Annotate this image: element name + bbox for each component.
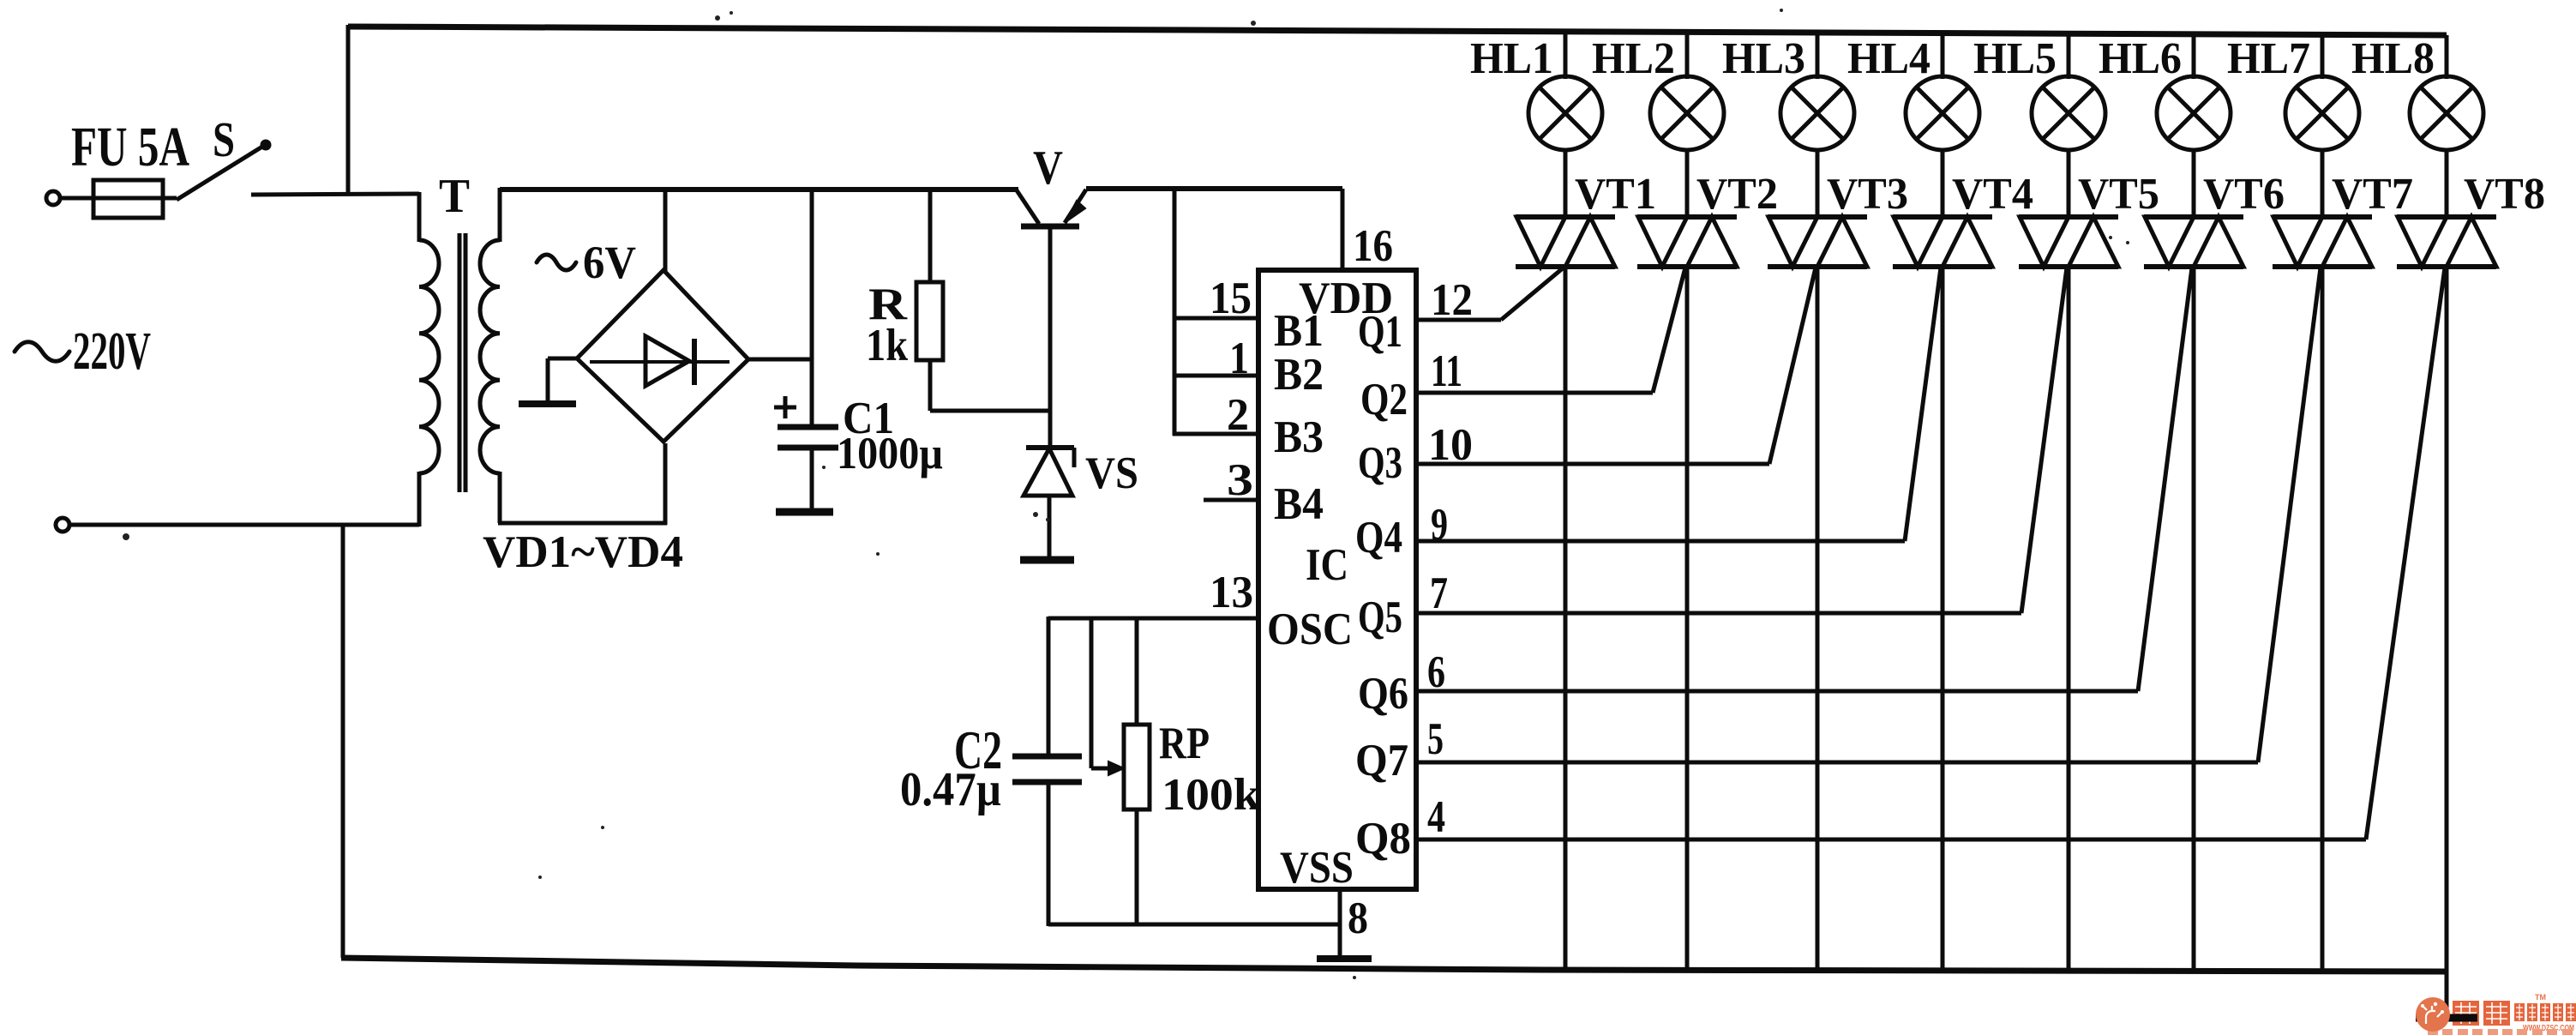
label 1000µ bbox=[837, 429, 943, 478]
svg-text:Q7: Q7 bbox=[1355, 736, 1408, 785]
svg-text:TM: TM bbox=[2535, 993, 2546, 1002]
label Q4 bbox=[1355, 513, 1402, 563]
wire RP bottom lead bbox=[1135, 809, 1139, 926]
label Q2 bbox=[1360, 375, 1408, 424]
wire lamp HL7 top lead bbox=[2321, 34, 2325, 79]
label ~6V bbox=[537, 237, 636, 288]
wire Q3 output bbox=[1416, 462, 1769, 466]
wire triac VT8 cathode down bbox=[2445, 267, 2449, 1016]
wire B-select bus bbox=[1173, 187, 1177, 436]
svg-text:VT4: VT4 bbox=[1952, 170, 2033, 219]
pin number 8 bbox=[1348, 894, 1368, 943]
wire pin13 lead bbox=[1048, 617, 1258, 621]
potentiometer RP 100k bbox=[1124, 725, 1150, 809]
label 100k bbox=[1162, 770, 1261, 820]
wire secondary top lead bbox=[498, 188, 502, 242]
pin number 12 bbox=[1431, 275, 1473, 325]
svg-text:RP: RP bbox=[1159, 719, 1210, 768]
wire RP wiper branch bbox=[1091, 617, 1124, 775]
label VT3 bbox=[1827, 170, 1908, 219]
ground bar bottom right bbox=[2416, 1014, 2477, 1022]
wire lamp HL3 top lead bbox=[1816, 33, 1820, 79]
svg-text:Q4: Q4 bbox=[1355, 513, 1402, 563]
label VT7 bbox=[2332, 170, 2413, 219]
label Q1 bbox=[1358, 307, 1402, 357]
wire lamp HL6 top lead bbox=[2192, 34, 2196, 79]
lamp HL2 bbox=[1650, 76, 1724, 150]
svg-text:Q2: Q2 bbox=[1360, 375, 1408, 424]
triac VT3 triangles bbox=[1768, 217, 1867, 267]
svg-text:HL1: HL1 bbox=[1470, 34, 1553, 83]
svg-text:220V: 220V bbox=[73, 322, 151, 381]
triac VT4 MT2 bar bbox=[1893, 214, 1992, 220]
label HL4 bbox=[1847, 34, 1930, 83]
svg-text:Q8: Q8 bbox=[1355, 814, 1411, 864]
label HL2 bbox=[1592, 34, 1675, 83]
pin number 4 bbox=[1427, 792, 1445, 842]
svg-text:HL2: HL2 bbox=[1592, 34, 1675, 83]
pin number 5 bbox=[1427, 714, 1444, 764]
lamp HL1 bbox=[1528, 76, 1602, 150]
pin number 11 bbox=[1431, 346, 1462, 396]
wire VS anode lead bbox=[1048, 496, 1052, 557]
svg-text:8: 8 bbox=[1348, 894, 1368, 943]
svg-text:11: 11 bbox=[1431, 346, 1462, 396]
wire pin1 lead bbox=[1174, 374, 1258, 378]
lamp HL8 bbox=[2410, 76, 2483, 150]
label VSS bbox=[1280, 843, 1354, 893]
wire Q2 gate diagonal bbox=[1653, 268, 1685, 393]
wire C2 bottom lead bbox=[1047, 782, 1051, 926]
lamp HL3 bbox=[1780, 76, 1854, 150]
svg-text:IC: IC bbox=[1306, 540, 1348, 590]
bridge rectifier VD1~VD4 bbox=[577, 270, 748, 442]
svg-text:VT2: VT2 bbox=[1696, 170, 1778, 219]
svg-text:V: V bbox=[1033, 141, 1063, 195]
wire secondary bottom lead bbox=[498, 443, 667, 525]
label 0.47µ bbox=[900, 763, 1001, 816]
label HL7 bbox=[2227, 34, 2310, 83]
svg-text:6V: 6V bbox=[583, 237, 636, 288]
svg-text:HL6: HL6 bbox=[2099, 34, 2182, 83]
transformer T secondary winding bbox=[480, 240, 500, 473]
wire lamp HL5 top lead bbox=[2067, 33, 2071, 79]
lamp HL4 bbox=[1906, 76, 1979, 150]
svg-text:15: 15 bbox=[1210, 274, 1252, 323]
wire Q1 output bbox=[1416, 318, 1501, 322]
label ~220V bbox=[15, 322, 151, 381]
wire osc loop bottom bbox=[1048, 923, 1340, 927]
label VDD bbox=[1299, 274, 1393, 323]
label HL3 bbox=[1722, 34, 1805, 83]
wire RP top lead bbox=[1135, 617, 1139, 726]
label Q6 bbox=[1358, 669, 1408, 719]
label Q3 bbox=[1358, 438, 1402, 488]
wire lamp HL2 top lead bbox=[1685, 32, 1690, 79]
zener VS triangle bbox=[1024, 448, 1072, 496]
wire Q7 output bbox=[1416, 761, 2258, 765]
label VT1 bbox=[1575, 170, 1656, 219]
triac VT7 triangles bbox=[2273, 217, 2372, 267]
svg-text:VT5: VT5 bbox=[2078, 170, 2159, 219]
wire V base down bbox=[1048, 228, 1053, 449]
wire triac VT7 cathode down bbox=[2321, 267, 2325, 972]
triac VT2 MT2 bar bbox=[1637, 214, 1737, 220]
svg-text:1000µ: 1000µ bbox=[837, 429, 943, 478]
svg-text:B3: B3 bbox=[1274, 412, 1324, 462]
triac VT2 triangles bbox=[1638, 217, 1737, 267]
wire Q4 gate diagonal bbox=[1905, 268, 1941, 541]
svg-text:7: 7 bbox=[1430, 569, 1448, 618]
pin number 13 bbox=[1210, 568, 1253, 617]
svg-text:VD1~VD4: VD1~VD4 bbox=[483, 527, 683, 577]
wire lamp HL2 to triac bbox=[1685, 148, 1690, 219]
wire C2 top lead bbox=[1047, 617, 1051, 755]
pin number 6 bbox=[1427, 647, 1445, 697]
svg-text:B1: B1 bbox=[1274, 306, 1324, 356]
triac VT8 triangles bbox=[2398, 217, 2496, 267]
transistor V base bar bbox=[1021, 224, 1079, 230]
triac VT7 MT2 bar bbox=[2273, 214, 2372, 220]
wire DC+ riser bbox=[810, 188, 814, 429]
triac VT4 MT1 bar bbox=[1893, 264, 1992, 269]
label VT2 bbox=[1696, 170, 1778, 219]
lamp HL7 bbox=[2285, 76, 2359, 150]
ground bar pin8 bbox=[1317, 955, 1372, 962]
svg-text:T: T bbox=[439, 170, 470, 223]
triac VT8 MT1 bar bbox=[2397, 264, 2496, 269]
label T bbox=[439, 170, 470, 223]
triac VT8 MT2 bar bbox=[2397, 214, 2496, 220]
svg-text:4: 4 bbox=[1427, 792, 1445, 842]
wire pin8 lead bbox=[1338, 889, 1342, 957]
wire VDD rail bbox=[1086, 189, 1342, 272]
svg-text:13: 13 bbox=[1210, 568, 1253, 617]
terminal input N bbox=[56, 518, 69, 532]
wire triac VT2 cathode down bbox=[1685, 267, 1690, 970]
wire pin3 lead bbox=[1204, 498, 1258, 502]
transistor V collector bbox=[1017, 190, 1039, 224]
wire C1 lower lead bbox=[810, 448, 814, 508]
pin number 1 bbox=[1229, 334, 1249, 383]
label B2 bbox=[1274, 350, 1324, 400]
triac VT5 triangles bbox=[2020, 217, 2118, 267]
svg-text:1k: 1k bbox=[866, 321, 908, 370]
wire Q5 gate diagonal bbox=[2021, 268, 2067, 613]
label C2 bbox=[954, 719, 1002, 780]
wire Q1 gate diagonal bbox=[1501, 268, 1564, 320]
wire bridge minus lead bbox=[548, 358, 579, 401]
wire lamp HL5 to triac bbox=[2067, 148, 2071, 219]
svg-text:VT6: VT6 bbox=[2203, 170, 2285, 219]
svg-text:Q3: Q3 bbox=[1358, 438, 1402, 488]
triac VT1 MT2 bar bbox=[1516, 214, 1615, 220]
triac VT6 MT1 bar bbox=[2144, 264, 2243, 269]
wire Q3 gate diagonal bbox=[1769, 268, 1816, 464]
svg-text:Q1: Q1 bbox=[1358, 307, 1402, 357]
triac VT1 MT1 bar bbox=[1516, 264, 1615, 269]
wire lamp HL7 to triac bbox=[2321, 148, 2325, 219]
wire Q8 output bbox=[1416, 838, 2366, 842]
wire left drop from top rail bbox=[346, 25, 351, 196]
label B3 bbox=[1274, 412, 1324, 462]
wire 6V rail to bridge bbox=[500, 187, 1018, 192]
label HL8 bbox=[2351, 34, 2435, 83]
wire lamp HL1 to triac bbox=[1564, 148, 1568, 219]
wire primary bottom lead bbox=[417, 472, 422, 527]
label VT8 bbox=[2464, 170, 2545, 219]
wire triac VT6 cathode down bbox=[2192, 267, 2196, 971]
wire Q4 output bbox=[1416, 539, 1905, 544]
triac VT7 MT1 bar bbox=[2273, 264, 2372, 269]
watermark weiku logo circle bbox=[2416, 997, 2450, 1032]
label VT6 bbox=[2203, 170, 2285, 219]
wire Q5 output bbox=[1416, 611, 2021, 616]
svg-text:1: 1 bbox=[1229, 334, 1249, 383]
pin number 3 bbox=[1227, 455, 1253, 505]
label + of C1 bbox=[774, 396, 796, 418]
label HL6 bbox=[2099, 34, 2182, 83]
wire lamp HL8 top lead bbox=[2445, 35, 2449, 79]
transformer core bbox=[459, 233, 465, 492]
svg-text:HL3: HL3 bbox=[1722, 34, 1805, 83]
svg-text:VT7: VT7 bbox=[2332, 170, 2413, 219]
wire Q6 output bbox=[1416, 689, 2138, 694]
resistor R 1k bbox=[916, 282, 943, 360]
svg-text:Q5: Q5 bbox=[1358, 593, 1402, 642]
triac VT5 MT1 bar bbox=[2019, 264, 2118, 269]
svg-text:B4: B4 bbox=[1274, 479, 1324, 529]
wire triac VT4 cathode down bbox=[1941, 267, 1945, 971]
label VS bbox=[1085, 448, 1138, 498]
wire lamp HL1 top lead bbox=[1564, 32, 1568, 79]
scan specks bbox=[123, 9, 2129, 979]
svg-text:VT1: VT1 bbox=[1575, 170, 1656, 219]
wire Q6 gate diagonal bbox=[2138, 268, 2192, 691]
svg-text:5: 5 bbox=[1427, 714, 1444, 764]
pin number 10 bbox=[1428, 420, 1473, 470]
capacitor C1 plates bbox=[778, 427, 838, 448]
label IC bbox=[1306, 540, 1348, 590]
svg-text:VSS: VSS bbox=[1280, 843, 1354, 893]
triac VT2 MT1 bar bbox=[1637, 264, 1737, 269]
label Q7 bbox=[1355, 736, 1408, 785]
lamp HL5 bbox=[2032, 76, 2105, 150]
triac VT5 MT2 bar bbox=[2019, 214, 2118, 220]
wire bottom rail bbox=[341, 958, 2447, 972]
wire lamp HL4 top lead bbox=[1941, 33, 1945, 79]
svg-text:OSC: OSC bbox=[1267, 605, 1353, 654]
label VD1~VD4 bbox=[483, 527, 683, 577]
wire triac VT3 cathode down bbox=[1816, 267, 1820, 971]
wire bridge top lead bbox=[664, 188, 668, 272]
svg-text:HL4: HL4 bbox=[1847, 34, 1930, 83]
label VT5 bbox=[2078, 170, 2159, 219]
pin number 7 bbox=[1430, 569, 1448, 618]
svg-text:S: S bbox=[213, 111, 235, 167]
wire lamp HL8 to triac bbox=[2445, 148, 2449, 219]
label Q8 bbox=[1355, 814, 1411, 864]
triac VT6 MT2 bar bbox=[2144, 214, 2243, 220]
wire R top lead bbox=[928, 188, 933, 284]
bridge inner diode bbox=[590, 336, 730, 386]
transistor V emitter with arrow bbox=[1065, 190, 1086, 223]
svg-text:3: 3 bbox=[1227, 455, 1253, 505]
triac VT4 triangles bbox=[1894, 217, 1992, 267]
svg-text:VT8: VT8 bbox=[2464, 170, 2545, 219]
wire neutral drop bbox=[341, 525, 345, 958]
transformer T primary winding bbox=[419, 240, 439, 473]
label HL5 bbox=[1973, 34, 2057, 83]
ground bar at bridge bbox=[519, 400, 576, 407]
wire Q2 output bbox=[1416, 391, 1653, 395]
svg-text:HL7: HL7 bbox=[2227, 34, 2310, 83]
wire lamp HL3 to triac bbox=[1816, 148, 1820, 219]
label B1 bbox=[1274, 306, 1324, 356]
switch S bbox=[177, 141, 270, 200]
pin number 2 bbox=[1227, 390, 1249, 440]
svg-text:B2: B2 bbox=[1274, 350, 1324, 400]
svg-text:VS: VS bbox=[1085, 448, 1138, 498]
label R bbox=[868, 280, 908, 329]
pin number 15 bbox=[1210, 274, 1252, 323]
wire Q8 gate diagonal bbox=[2366, 268, 2445, 839]
wire lamp HL4 to triac bbox=[1941, 148, 1945, 219]
capacitor C2 plates bbox=[1012, 756, 1082, 782]
svg-text:12: 12 bbox=[1431, 275, 1473, 325]
pin number 16 bbox=[1353, 221, 1393, 271]
ground bar C1 bbox=[776, 508, 833, 516]
label OSC bbox=[1267, 605, 1353, 654]
triac VT1 triangles bbox=[1516, 217, 1615, 267]
label RP bbox=[1159, 719, 1210, 768]
wire neutral bottom bbox=[69, 523, 419, 527]
svg-text:HL8: HL8 bbox=[2351, 34, 2435, 83]
fuse FU 5A bbox=[93, 180, 177, 218]
label B4 bbox=[1274, 479, 1324, 529]
wire top 220V rail bbox=[348, 27, 2447, 35]
wire lamp HL6 to triac bbox=[2192, 148, 2196, 219]
label FU 5A bbox=[71, 116, 189, 178]
wire switch to transformer bbox=[251, 192, 419, 242]
wire terminal to fuse bbox=[60, 196, 94, 201]
ground bar VS bbox=[1020, 557, 1074, 564]
svg-text:0.47µ: 0.47µ bbox=[900, 763, 1001, 816]
label 1k bbox=[866, 321, 908, 370]
label V bbox=[1033, 141, 1063, 195]
triac VT3 MT1 bar bbox=[1768, 264, 1867, 269]
wire Q7 gate diagonal bbox=[2258, 268, 2321, 762]
wire R bottom lead bbox=[930, 360, 1052, 411]
label Q5 bbox=[1358, 593, 1402, 642]
svg-text:HL5: HL5 bbox=[1973, 34, 2057, 83]
svg-text:16: 16 bbox=[1353, 221, 1393, 271]
pin number 9 bbox=[1431, 500, 1448, 550]
label C1 bbox=[843, 394, 894, 443]
terminal input L bbox=[46, 191, 60, 205]
wire triac VT5 cathode down bbox=[2067, 267, 2071, 971]
svg-text:VT3: VT3 bbox=[1827, 170, 1908, 219]
triac VT6 triangles bbox=[2145, 217, 2243, 267]
label HL1 bbox=[1470, 34, 1553, 83]
wire triac VT1 cathode down bbox=[1564, 267, 1568, 970]
svg-text:2: 2 bbox=[1227, 390, 1249, 440]
watermark weiku logo text bbox=[2428, 993, 2576, 1035]
label S bbox=[213, 111, 235, 167]
triac VT3 MT2 bar bbox=[1768, 214, 1867, 220]
label VT4 bbox=[1952, 170, 2033, 219]
zener VS cathode bar bbox=[1026, 448, 1074, 467]
svg-text:Q6: Q6 bbox=[1358, 669, 1408, 719]
lamp HL6 bbox=[2157, 76, 2231, 150]
wire pin2 lead bbox=[1173, 432, 1258, 436]
wire pin15 lead bbox=[1174, 316, 1258, 321]
svg-text:FU 5A: FU 5A bbox=[71, 116, 189, 178]
IC box bbox=[1258, 270, 1416, 889]
wire bridge plus lead bbox=[747, 358, 814, 362]
svg-text:100k: 100k bbox=[1162, 770, 1261, 820]
